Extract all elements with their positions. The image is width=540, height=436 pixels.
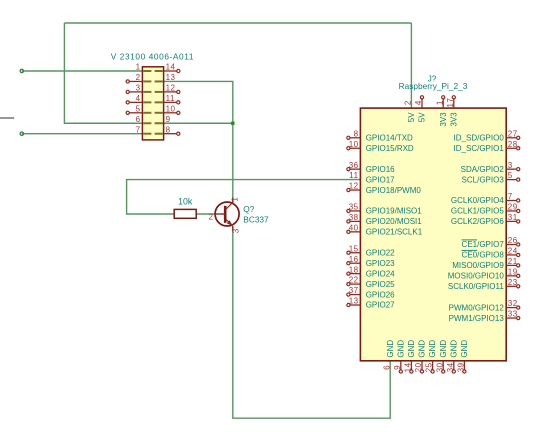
J? pin 3 SDA/GPIO2 (506, 168, 516, 170)
svg-text:GND: GND (386, 340, 395, 358)
wire: left stub to relay pin 7 (22, 133, 143, 135)
junction: collector net junction (231, 122, 234, 125)
J? pin 12 GPIO18/PWM0 (350, 189, 360, 191)
svg-text:3: 3 (508, 161, 513, 170)
transistor emitter stroke (226, 219, 233, 226)
svg-text:Raspberry_Pi_2_3: Raspberry_Pi_2_3 (399, 81, 468, 91)
svg-text:GCLK0/GPIO4: GCLK0/GPIO4 (451, 196, 504, 205)
J? pin 28 ID_SC/GPIO1 (506, 147, 516, 149)
svg-text:MOSI0/GPIO10: MOSI0/GPIO10 (448, 272, 505, 281)
J? pin 40 GPIO21/SCLK1 (350, 231, 360, 233)
svg-text:8: 8 (354, 129, 359, 138)
svg-text:GPIO27: GPIO27 (366, 301, 395, 310)
svg-text:SDA/GPIO2: SDA/GPIO2 (461, 165, 505, 174)
svg-text:39: 39 (457, 362, 466, 372)
svg-text:GPIO25: GPIO25 (366, 280, 395, 289)
relay pin 4 (129, 101, 142, 103)
svg-text:31: 31 (508, 213, 518, 222)
J? pin 1 3V3 (top) (442, 99, 444, 108)
transistor collector pin (232, 197, 234, 202)
svg-text:10: 10 (166, 104, 176, 113)
wire: GPIO17 to base resistor (127, 180, 361, 214)
svg-text:GND: GND (428, 340, 437, 358)
J? pin 37 GPIO26 (350, 294, 360, 296)
transistor emitter pin (232, 226, 234, 231)
svg-text:4: 4 (136, 94, 141, 103)
svg-text:GPIO19/MISO1: GPIO19/MISO1 (366, 207, 423, 216)
svg-text:18: 18 (349, 265, 359, 274)
svg-text:GND: GND (460, 340, 469, 358)
J? pin 5 SCL/GPIO3 (506, 179, 516, 181)
J? pin 7 GCLK0/GPIO4 (506, 200, 516, 202)
svg-text:26: 26 (508, 236, 518, 245)
J? pin 27 ID_SD/GPIO0 (506, 137, 516, 139)
svg-text:GPIO22: GPIO22 (366, 248, 395, 257)
J? pin 33 PWM1/GPIO13 (506, 317, 516, 319)
wire: collector vertical down to Q? (232, 123, 234, 202)
svg-text:19: 19 (508, 267, 518, 276)
J? pin 14 GND (bottom) (410, 361, 412, 370)
relay pin 12 (164, 91, 177, 93)
relay pin 3 (129, 91, 142, 93)
svg-text:MISO0/GPIO9: MISO0/GPIO9 (452, 261, 504, 270)
svg-text:GND: GND (396, 340, 405, 358)
svg-text:GPIO16: GPIO16 (366, 165, 395, 174)
J? pin 22 GPIO25 (350, 283, 360, 285)
svg-text:PWM0/GPIO12: PWM0/GPIO12 (449, 303, 505, 312)
wire: left stub to relay pin 1 (22, 70, 143, 72)
svg-text:14: 14 (166, 63, 176, 72)
svg-text:25: 25 (425, 362, 434, 372)
J? pin 31 GCLK2/GPIO6 (506, 220, 516, 222)
svg-text:33: 33 (508, 310, 518, 319)
svg-text:GPIO20/MOSI1: GPIO20/MOSI1 (366, 217, 423, 226)
svg-text:37: 37 (349, 286, 359, 295)
svg-text:5: 5 (508, 171, 513, 180)
svg-text:6: 6 (382, 365, 391, 370)
svg-text:20: 20 (414, 362, 423, 372)
J? pin 32 PWM0/GPIO12 (506, 307, 516, 309)
svg-text:28: 28 (508, 140, 518, 149)
svg-text:5: 5 (136, 104, 141, 113)
wire: emitter down and across to GND pin 6 (233, 226, 390, 418)
svg-text:GPIO26: GPIO26 (366, 290, 395, 299)
relay pin 11 (164, 101, 177, 103)
svg-text:29: 29 (508, 203, 518, 212)
svg-text:14: 14 (404, 362, 413, 372)
svg-text:2: 2 (136, 73, 141, 82)
svg-text:GPIO14/TXD: GPIO14/TXD (366, 134, 413, 143)
relay pin 8 (164, 133, 177, 135)
svg-text:SCL/GPIO3: SCL/GPIO3 (462, 175, 505, 184)
svg-text:GPIO15/RXD: GPIO15/RXD (366, 144, 414, 153)
svg-text:GND: GND (439, 340, 448, 358)
relay pin 10 (164, 112, 177, 114)
J? pin 34 GND (bottom) (453, 361, 455, 370)
svg-text:Q?: Q? (243, 204, 254, 214)
svg-text:9: 9 (393, 365, 402, 370)
node: open wire end circle (pin 7 feed) (20, 132, 23, 135)
svg-text:CE0/GPIO8: CE0/GPIO8 (462, 251, 505, 260)
relay pin 13 (155, 80, 163, 82)
svg-text:GPIO21/SCLK1: GPIO21/SCLK1 (366, 228, 423, 237)
svg-text:2: 2 (404, 100, 413, 105)
svg-text:CE1/GPIO7: CE1/GPIO7 (462, 240, 505, 249)
svg-text:3V3: 3V3 (449, 112, 458, 127)
J? pin 30 GND (bottom) (442, 361, 444, 370)
node: open wire end circle (pin 1 feed) (20, 69, 23, 72)
J? pin 16 GPIO23 (350, 262, 360, 264)
J? pin 36 GPIO16 (350, 168, 360, 170)
svg-text:34: 34 (446, 362, 455, 372)
wire: drop to connector J? pin 2 (5V) (410, 23, 412, 108)
svg-text:GPIO18/PWM0: GPIO18/PWM0 (366, 186, 422, 195)
relay pin 14 (164, 70, 177, 72)
svg-text:30: 30 (435, 362, 444, 372)
wire: relay pin 9 to junction (164, 122, 233, 124)
relay K? body V 23100 4006-A011 (142, 67, 163, 140)
wire: relay pin 13 over to collector net (164, 81, 233, 123)
svg-text:4: 4 (414, 100, 423, 105)
svg-text:GPIO24: GPIO24 (366, 269, 395, 278)
J? pin 8 GPIO14/TXD (350, 137, 360, 139)
J? pin 20 GND (bottom) (421, 361, 423, 370)
svg-text:21: 21 (508, 257, 518, 266)
svg-text:7: 7 (136, 125, 141, 134)
J? pin 13 GPIO27 (350, 304, 360, 306)
svg-text:SCLK0/GPIO11: SCLK0/GPIO11 (448, 282, 504, 291)
svg-text:5V: 5V (407, 112, 416, 122)
relay pin 1 (143, 70, 151, 72)
transistor base pin (214, 213, 225, 215)
svg-text:1: 1 (136, 63, 141, 72)
J? pin 18 GPIO24 (350, 273, 360, 275)
svg-text:13: 13 (166, 73, 176, 82)
svg-text:10: 10 (349, 140, 359, 149)
svg-text:35: 35 (349, 203, 359, 212)
svg-text:11: 11 (349, 171, 358, 180)
svg-text:36: 36 (349, 161, 359, 170)
transistor collector stroke (226, 202, 234, 210)
relay pin 6 (143, 122, 151, 124)
J? pin 10 GPIO15/RXD (350, 147, 360, 149)
svg-text:3: 3 (232, 228, 241, 233)
J? pin 24 CE0/GPIO8 (506, 254, 516, 256)
J? pin 23 SCLK0/GPIO11 (506, 285, 516, 287)
svg-text:GCLK2/GPIO6: GCLK2/GPIO6 (451, 217, 504, 226)
J? pin 39 GND (bottom) (463, 361, 465, 370)
svg-text:12: 12 (166, 84, 176, 93)
svg-text:12: 12 (349, 182, 359, 191)
svg-text:1: 1 (435, 100, 444, 105)
wire: top horizontal 5V run (64, 22, 411, 24)
J? pin 38 GPIO20/MOSI1 (350, 220, 360, 222)
wire: partial gray wire at sheet edge (0, 117, 14, 119)
svg-text:27: 27 (508, 129, 518, 138)
svg-text:9: 9 (166, 115, 171, 124)
transistor emitter arrow (227, 220, 233, 226)
J? pin 19 MOSI0/GPIO10 (506, 275, 516, 277)
J? pin 15 GPIO22 (350, 252, 360, 254)
svg-text:15: 15 (349, 244, 359, 253)
svg-text:GPIO17: GPIO17 (366, 175, 395, 184)
transistor base bar (224, 206, 227, 223)
svg-text:38: 38 (349, 213, 359, 222)
svg-text:8: 8 (166, 125, 171, 134)
svg-text:ID_SD/GPIO0: ID_SD/GPIO0 (454, 134, 505, 143)
svg-text:23: 23 (508, 278, 518, 287)
svg-text:2: 2 (208, 212, 213, 221)
svg-text:3V3: 3V3 (439, 112, 448, 127)
resistor R? 10k (174, 209, 196, 218)
wire: resistor to transistor base (196, 213, 221, 215)
svg-text:PWM1/GPIO13: PWM1/GPIO13 (449, 314, 505, 323)
relay pin 5 (129, 112, 142, 114)
J? pin 4 5V (top) (421, 99, 423, 108)
svg-text:22: 22 (349, 276, 359, 285)
transistor Q? BC337 body circle (215, 202, 239, 226)
relay pin 2 (129, 80, 142, 82)
J? pin 35 GPIO19/MISO1 (350, 210, 360, 212)
svg-text:V 23100 4006-A011: V 23100 4006-A011 (111, 52, 194, 62)
svg-text:40: 40 (349, 223, 359, 232)
svg-text:17: 17 (446, 98, 455, 108)
svg-text:24: 24 (508, 247, 518, 256)
svg-text:32: 32 (508, 299, 518, 308)
svg-text:1: 1 (231, 197, 240, 202)
svg-text:GCLK1/GPIO5: GCLK1/GPIO5 (451, 207, 504, 216)
J? pin 21 MISO0/GPIO9 (506, 264, 516, 266)
J? pin 29 GCLK1/GPIO5 (506, 210, 516, 212)
relay pin 9 (155, 122, 163, 124)
svg-text:ID_SC/GPIO1: ID_SC/GPIO1 (454, 144, 505, 153)
svg-text:10k: 10k (178, 196, 193, 206)
svg-text:3: 3 (136, 84, 141, 93)
J? pin 9 GND (bottom) (400, 361, 402, 370)
svg-text:13: 13 (349, 297, 359, 306)
J? pin 25 GND (bottom) (432, 361, 434, 370)
wire: 5V loop left vertical + relay pin6 feed (64, 23, 142, 123)
J? pin 17 3V3 (top) (453, 99, 455, 108)
svg-text:5V: 5V (418, 112, 427, 122)
svg-text:GPIO23: GPIO23 (366, 259, 395, 268)
svg-text:GND: GND (449, 340, 458, 358)
svg-text:BC337: BC337 (243, 215, 269, 225)
svg-text:11: 11 (166, 94, 175, 103)
relay pin 7 (143, 133, 151, 135)
svg-text:6: 6 (136, 115, 141, 124)
svg-text:GND: GND (418, 340, 427, 358)
svg-text:7: 7 (508, 192, 513, 201)
svg-text:GND: GND (407, 340, 416, 358)
J? pin 26 CE1/GPIO7 (506, 244, 516, 246)
svg-text:16: 16 (349, 255, 359, 264)
connector J? Raspberry_Pi_2_3 body (360, 108, 506, 361)
